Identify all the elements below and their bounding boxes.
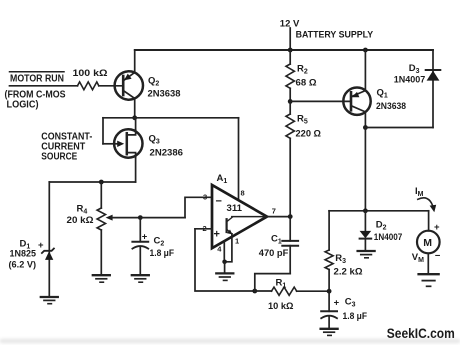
- wire: +12V top rail: [135, 49, 433, 51]
- wire: Q3 source down: [135, 158, 137, 182]
- ground: motor: [419, 274, 439, 286]
- scan artifact: bottom gray band: [0, 339, 460, 343]
- svg-text:1.8 μF: 1.8 μF: [150, 248, 175, 259]
- label: (FROM C-MOS LOGIC): [5, 90, 66, 111]
- svg-text:68 Ω: 68 Ω: [296, 78, 317, 89]
- svg-text:C2: C2: [154, 236, 165, 248]
- transistor Q1 2N3638 (PNP): [343, 88, 370, 115]
- diode D2 1N4007: [360, 211, 372, 251]
- wire: pin 8 vertical drop: [238, 118, 240, 201]
- svg-text:M: M: [423, 237, 432, 249]
- node: output junction: [288, 214, 293, 219]
- svg-text:3: 3: [203, 193, 207, 202]
- svg-text:MOTOR RUN: MOTOR RUN: [10, 74, 64, 85]
- resistor R4 20k potentiometer: [97, 182, 140, 275]
- svg-text:2N3638: 2N3638: [148, 89, 181, 100]
- svg-text:R3: R3: [335, 253, 346, 265]
- wire: ground stem: [224, 262, 226, 274]
- transistor Q2 2N3638 (PNP): [115, 71, 143, 99]
- svg-text:2N3638: 2N3638: [376, 101, 406, 112]
- svg-text:470 pF: 470 pF: [259, 248, 289, 259]
- node: pin4/1 ground tie: [222, 260, 227, 265]
- wire: pin 2 stub: [195, 228, 212, 230]
- wire: Q1 collector down: [364, 112, 366, 128]
- wire: D1 branch vertical: [48, 182, 50, 297]
- wire: wiper node to pin3 riser: [140, 217, 185, 219]
- svg-text:220 Ω: 220 Ω: [296, 129, 322, 140]
- wire: collector node to D3 bottom: [365, 127, 433, 129]
- node: wiper / C2 junction: [138, 215, 143, 220]
- svg-text:100 kΩ: 100 kΩ: [73, 68, 108, 79]
- svg-text:IM: IM: [415, 186, 424, 198]
- svg-text:4: 4: [217, 244, 222, 253]
- svg-text:Q1: Q1: [377, 88, 388, 100]
- svg-text:+: +: [334, 298, 340, 309]
- svg-text:1: 1: [235, 237, 239, 246]
- wire: Q2 collector down to node: [134, 99, 136, 118]
- svg-text:SeekIC.com: SeekIC.com: [387, 325, 455, 341]
- wire: D3 branch vertical: [432, 50, 434, 128]
- svg-text:A1: A1: [217, 173, 228, 185]
- svg-text:Q2: Q2: [148, 76, 159, 88]
- transistor Q3 2N2386 (JFET constant current source): [114, 129, 142, 157]
- resistor R2 68 Ohm: [286, 50, 294, 101]
- svg-text:LOGIC): LOGIC): [7, 100, 39, 111]
- node: R1/R3/C3 junction: [327, 289, 332, 294]
- capacitor C1 470 pF: [255, 217, 298, 291]
- op-amp internal output transistor: [227, 217, 267, 235]
- svg-text:20 kΩ: 20 kΩ: [67, 215, 94, 226]
- svg-text:1N825: 1N825: [10, 249, 37, 260]
- svg-text:311: 311: [227, 203, 243, 214]
- wire: Q1 base from divider: [290, 100, 351, 102]
- wire: gate drop vertical: [102, 118, 104, 144]
- wire: pin 4 drop: [223, 241, 225, 261]
- wire: gate horizontal into Q3: [103, 143, 114, 145]
- svg-text:D3: D3: [409, 63, 420, 75]
- node: R4 top junction: [99, 180, 104, 185]
- svg-text:1N4007: 1N4007: [394, 75, 426, 86]
- svg-text:R5: R5: [297, 114, 308, 126]
- svg-text:VM: VM: [412, 252, 424, 264]
- node: rail junction at 12V feed: [289, 49, 291, 51]
- ground: D2: [358, 251, 375, 258]
- svg-text:12 V: 12 V: [280, 18, 300, 29]
- node: D2 junction: [363, 208, 368, 213]
- ground: D1: [41, 297, 58, 304]
- wire: lower distribution line: [329, 210, 429, 212]
- svg-text:R4: R4: [77, 204, 88, 216]
- wire: to motor: [428, 211, 430, 231]
- wire: node left to gate drop: [103, 117, 135, 119]
- wire: op-amp output to node: [267, 216, 290, 218]
- ground: op-amp: [216, 273, 233, 280]
- motor M: [417, 231, 440, 274]
- node: C1 / R1 / pin2 junction: [252, 289, 257, 294]
- wire: 100k to Q2 base: [99, 85, 123, 87]
- diode D3 1N4007: [426, 70, 441, 81]
- svg-text:+: +: [434, 222, 440, 233]
- resistor R5 220 Ohm: [286, 101, 294, 216]
- diode D1 1N825 zener (6.2 V): [42, 249, 54, 260]
- wire: node right toward op-amp pin 8: [135, 117, 239, 119]
- wire: Q3 drain up to node: [135, 118, 137, 130]
- ground: C2: [132, 275, 149, 282]
- wire: pin3 riser: [185, 197, 212, 217]
- svg-text:7: 7: [272, 207, 276, 216]
- svg-text:C3: C3: [345, 297, 356, 309]
- svg-text:−: −: [216, 196, 222, 208]
- resistor R1 10k: [255, 287, 329, 295]
- node: Q1 collector / D3 junction: [363, 125, 368, 130]
- svg-text:2N2386: 2N2386: [150, 148, 184, 159]
- svg-text:1N4007: 1N4007: [374, 232, 403, 243]
- svg-text:C1: C1: [271, 234, 282, 246]
- wire: Q2 emitter to rail: [134, 50, 136, 72]
- svg-text:1.8 μF: 1.8 μF: [343, 311, 368, 322]
- wire: motor-run input to R 100k: [10, 85, 78, 87]
- svg-text:2.2 kΩ: 2.2 kΩ: [334, 267, 363, 278]
- capacitor C2 1.8uF: [132, 218, 148, 275]
- ground: R4: [93, 275, 110, 282]
- node: Q2 collector / Q3 drain / feedback junction: [132, 115, 137, 120]
- op-amp A1 LM311: [212, 185, 267, 248]
- ground: C3: [321, 329, 338, 336]
- wire: pin 1 drop and tie to pin 4: [225, 234, 232, 262]
- svg-text:10 kΩ: 10 kΩ: [268, 301, 294, 312]
- svg-text:−: −: [435, 251, 441, 262]
- svg-text:Q3: Q3: [149, 134, 160, 146]
- svg-text:8: 8: [241, 189, 245, 198]
- svg-text:R1: R1: [276, 278, 287, 290]
- node: rail junction at Q1 emitter: [363, 48, 368, 53]
- svg-text:R2: R2: [297, 64, 308, 76]
- wire: Q1 collector to D2 node: [364, 128, 366, 211]
- capacitor C3 1.8uF: [321, 291, 337, 328]
- svg-text:+: +: [38, 240, 44, 251]
- svg-text:+: +: [214, 229, 220, 241]
- wire: 12V stub: [289, 28, 291, 50]
- svg-text:SOURCE: SOURCE: [41, 152, 77, 163]
- arrow: IM curved: [418, 198, 436, 212]
- svg-text:D2: D2: [376, 220, 387, 232]
- resistor 100 kOhm: [78, 82, 99, 90]
- resistor R3 2.2k: [325, 211, 333, 291]
- node: R2/R5/Q1 base junction: [288, 99, 293, 104]
- label: CONSTANT-CURRENT SOURCE: [41, 132, 92, 163]
- wire: pin 2 down and along bottom: [195, 229, 255, 291]
- wire: Q1 emitter to rail: [364, 50, 366, 91]
- svg-text:BATTERY SUPPLY: BATTERY SUPPLY: [296, 30, 374, 41]
- label: MOTOR RUN (with overline): [10, 72, 65, 85]
- svg-text:(6.2 V): (6.2 V): [9, 260, 37, 271]
- wire: bottom-left horizontal (source to D1 branch): [49, 181, 135, 183]
- svg-text:+: +: [142, 232, 148, 243]
